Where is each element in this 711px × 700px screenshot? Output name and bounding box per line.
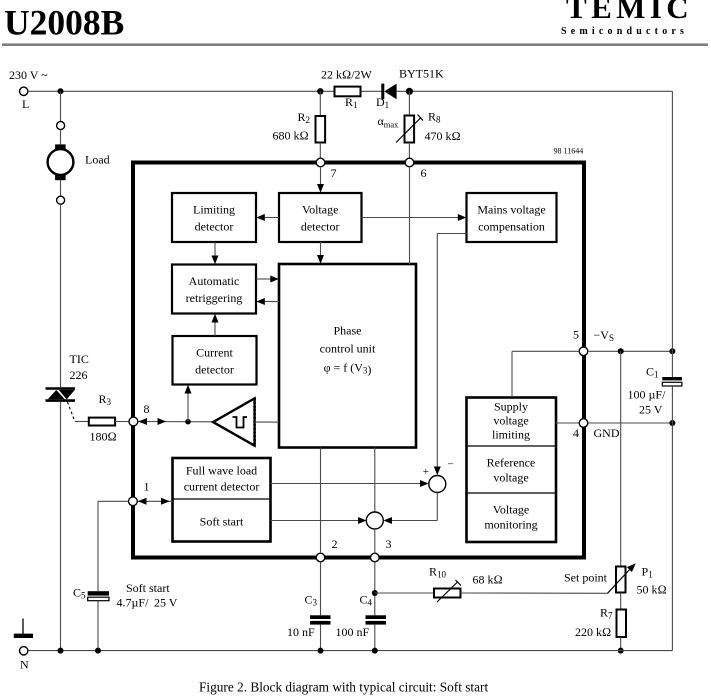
svg-text:C4: C4 — [360, 593, 373, 608]
wire left rail load to triac — [60, 204, 62, 387]
terminal N — [20, 647, 30, 672]
svg-text:current detector: current detector — [184, 480, 260, 494]
svg-text:220 kΩ: 220 kΩ — [575, 625, 611, 639]
node D1 R8 junction — [406, 88, 413, 95]
svg-text:voltage: voltage — [493, 471, 528, 485]
wire phase control to pin2 — [320, 448, 322, 554]
svg-text:180Ω: 180Ω — [90, 430, 117, 444]
svg-text:D1: D1 — [376, 95, 389, 110]
wire upper summing to lower summing — [384, 493, 438, 525]
svg-text:R10: R10 — [429, 565, 447, 580]
svg-text:22 kΩ/2W: 22 kΩ/2W — [321, 68, 373, 82]
node left rail tap — [58, 88, 64, 94]
wire Vs tap down to P1 — [620, 351, 622, 566]
svg-text:Voltage: Voltage — [493, 503, 529, 517]
arrow voltage detector to mains compensation — [362, 214, 467, 221]
svg-text:C3: C3 — [305, 593, 318, 608]
svg-text:680 kΩ: 680 kΩ — [273, 129, 309, 143]
capacitor C1 100uF — [628, 365, 682, 417]
wire R10 to P1 wiper — [461, 592, 608, 594]
wire R3 to pin8 — [115, 421, 129, 423]
svg-text:Mains voltage: Mains voltage — [477, 203, 545, 217]
wire pulse amp to phase control — [255, 421, 279, 423]
arrow retriggering to phase control — [256, 276, 279, 283]
svg-text:+: + — [423, 466, 429, 478]
resistor R7 220k — [575, 606, 626, 640]
header rule — [2, 43, 708, 46]
svg-text:BYT51K: BYT51K — [399, 67, 444, 81]
node C4 N junction — [372, 648, 378, 654]
svg-text:68 kΩ: 68 kΩ — [473, 573, 503, 587]
arrow limiting detector to retriggering — [212, 242, 219, 264]
node C5 N junction — [95, 648, 101, 654]
svg-text:TIC: TIC — [70, 352, 89, 366]
svg-text:GND: GND — [594, 426, 620, 440]
svg-text:4.7µF/: 4.7µF/ — [117, 596, 150, 610]
arrow phase control to retriggering — [256, 298, 279, 305]
capacitor C4 100nF — [336, 593, 387, 640]
svg-text:25 V: 25 V — [639, 403, 663, 417]
svg-text:Phase: Phase — [334, 324, 362, 338]
svg-text:Full wave load: Full wave load — [186, 464, 257, 478]
wire C4 to N line — [374, 625, 376, 651]
svg-text:R8: R8 — [428, 110, 441, 125]
summing junction upper — [423, 459, 454, 493]
svg-text:−VS: −VS — [594, 328, 614, 343]
svg-text:N: N — [20, 658, 29, 672]
box phase control unit — [279, 264, 416, 448]
resistor R2 — [273, 110, 326, 143]
svg-text:470 kΩ: 470 kΩ — [425, 129, 461, 143]
pin 8 — [129, 402, 150, 426]
pin 6 — [405, 158, 426, 180]
resistor R3 180ohm — [89, 392, 117, 444]
node left rail N junction — [58, 648, 64, 654]
node rail GND junction — [669, 420, 675, 426]
box automatic retriggering — [172, 265, 256, 314]
right rail from top corner to C1 — [671, 91, 673, 377]
svg-text:C5: C5 — [73, 586, 86, 601]
node pulse wire tap — [185, 419, 191, 425]
svg-text:detector: detector — [195, 220, 234, 234]
arrow voltage detector to phase control — [317, 242, 324, 264]
load motor with connectors — [48, 122, 110, 205]
box supply voltage limiting / reference voltage / voltage monitoring — [467, 398, 557, 543]
svg-text:R2: R2 — [298, 110, 311, 125]
svg-text:1: 1 — [144, 480, 150, 494]
svg-text:Reference: Reference — [487, 456, 536, 470]
wire C3 from pin2 — [320, 562, 322, 616]
svg-text:5: 5 — [573, 328, 579, 342]
svg-text:98 11644: 98 11644 — [554, 147, 584, 156]
wire pin7 to voltage detector arrow — [317, 167, 324, 193]
wire R10 tap to R10 — [375, 592, 434, 594]
box limiting detector — [172, 193, 256, 242]
svg-text:−: − — [448, 459, 454, 471]
wire R2 to pin7 — [319, 143, 321, 159]
svg-text:226: 226 — [70, 368, 88, 382]
N line bottom wire — [28, 650, 673, 652]
svg-text:3: 3 — [386, 537, 392, 551]
wire left rail L to load — [60, 91, 62, 121]
resistor R1 — [321, 68, 373, 111]
pin 2 — [316, 537, 337, 562]
svg-text:8: 8 — [144, 402, 150, 416]
svg-text:Load: Load — [85, 153, 110, 167]
svg-text:C1: C1 — [646, 365, 659, 380]
node R2 tap — [317, 88, 323, 94]
svg-text:4: 4 — [573, 426, 579, 440]
svg-text:Limiting: Limiting — [193, 203, 235, 217]
arrow voltage detector to limiting detector — [256, 214, 279, 221]
pin 3 — [371, 537, 392, 562]
wire pin5 right to rail — [588, 350, 673, 352]
svg-text:Soft start: Soft start — [200, 515, 244, 529]
node C3 N junction — [318, 648, 324, 654]
right rail from C1 to N line — [671, 386, 673, 650]
summing junction lower — [366, 512, 383, 529]
wire left rail triac to N line — [60, 402, 62, 651]
svg-text:50 kΩ: 50 kΩ — [637, 583, 667, 597]
wire mains compensation feedback down — [434, 234, 467, 476]
pin8 double arrow wire to pulse amp — [138, 418, 214, 425]
pin 5 — [573, 328, 614, 356]
wire pin1 to C5 — [98, 501, 129, 591]
svg-text:compensation: compensation — [478, 220, 545, 234]
svg-text:limiting: limiting — [492, 428, 530, 442]
node R10 tap — [372, 590, 378, 596]
svg-text:Semiconductors: Semiconductors — [561, 26, 688, 37]
node P1 branch tap — [618, 348, 624, 354]
wire C4 from pin3 — [374, 562, 376, 616]
svg-text:Set point: Set point — [564, 571, 608, 585]
svg-text:25 V: 25 V — [154, 596, 178, 610]
wire R7 to N line — [620, 637, 622, 651]
pulse amplifier triangle — [213, 398, 255, 445]
svg-text:230 V ~: 230 V ~ — [9, 68, 48, 82]
svg-text:2: 2 — [332, 537, 338, 551]
svg-text:7: 7 — [331, 166, 337, 180]
wire lower summing to pin3 — [374, 529, 376, 553]
box voltage detector — [279, 193, 362, 242]
svg-text:Soft start: Soft start — [126, 581, 170, 595]
wire R8 branch upper — [408, 91, 410, 115]
box current detector — [173, 336, 257, 385]
svg-text:control unit: control unit — [320, 342, 376, 356]
wire C5 to N line — [97, 601, 99, 651]
svg-text:L: L — [22, 97, 29, 111]
pin 4 — [573, 419, 620, 440]
arrow junction up to current detector — [185, 385, 192, 422]
capacitor C5 soft start — [73, 581, 178, 610]
wire top rail from D1 to right corner — [397, 90, 673, 92]
pin 1 — [129, 480, 150, 506]
arrow current detector to retriggering — [212, 314, 219, 336]
svg-text:αmax: αmax — [378, 114, 400, 130]
svg-text:10 nF: 10 nF — [287, 625, 315, 639]
svg-text:100 µF/: 100 µF/ — [628, 388, 667, 402]
node R7 N junction — [618, 648, 624, 654]
box mains voltage compensation — [467, 193, 557, 242]
arrow soft start to lower summing — [271, 517, 367, 524]
svg-text:Current: Current — [196, 346, 233, 360]
svg-text:voltage: voltage — [493, 414, 528, 428]
wire R8 to pin6 — [408, 143, 410, 159]
svg-text:P1: P1 — [642, 565, 653, 580]
svg-text:retriggering: retriggering — [186, 291, 243, 305]
pin 7 — [316, 158, 336, 180]
svg-text:6: 6 — [421, 166, 427, 180]
svg-text:100 nF: 100 nF — [336, 625, 370, 639]
resistor R8 470k — [378, 110, 461, 144]
ground symbol — [14, 619, 33, 636]
svg-text:detector: detector — [195, 363, 234, 377]
triac TIC226 — [46, 352, 89, 421]
svg-text:Supply: Supply — [494, 400, 528, 414]
svg-text:detector: detector — [301, 220, 340, 234]
terminal L 230V — [9, 68, 48, 111]
wire top rail from R1 to D1 — [361, 90, 382, 92]
box full wave load current detector / soft start — [173, 458, 271, 542]
node rail Vs junction — [669, 348, 675, 354]
wire supply box to pin4 — [556, 422, 579, 424]
IC block U2008B outline — [133, 163, 584, 558]
wire pin6 down to phase control unit — [409, 167, 411, 264]
wire triac gate to R3 — [75, 421, 89, 423]
wire R2 branch upper — [319, 91, 321, 116]
wire top rail from L to R1 — [28, 90, 335, 92]
svg-text:U2008B: U2008B — [4, 2, 124, 42]
wire P1 to R7 — [620, 593, 622, 610]
wire pin5 left and down to supply box — [512, 351, 579, 397]
svg-text:R7: R7 — [600, 606, 613, 621]
wire pin4 to rail GND — [588, 422, 673, 424]
wire C3 to N line — [320, 625, 322, 651]
pin1 double arrow to full wave box — [137, 498, 172, 505]
svg-text:Voltage: Voltage — [302, 203, 338, 217]
arrow full wave detector to upper summing — [271, 480, 429, 487]
wire phase control to summing node — [374, 448, 376, 513]
svg-text:Figure 2. Block diagram with: Figure 2. Block diagram with typical cir… — [199, 680, 488, 695]
potentiometer P1 50k — [608, 563, 667, 596]
svg-text:Automatic: Automatic — [189, 274, 240, 288]
capacitor C3 10nF — [287, 593, 331, 640]
resistor R10 68k — [429, 565, 503, 603]
svg-text:R3: R3 — [99, 392, 112, 407]
diode D1 BYT51K — [376, 67, 444, 111]
svg-text:monitoring: monitoring — [484, 518, 537, 532]
svg-text:TEMIC: TEMIC — [566, 0, 693, 25]
